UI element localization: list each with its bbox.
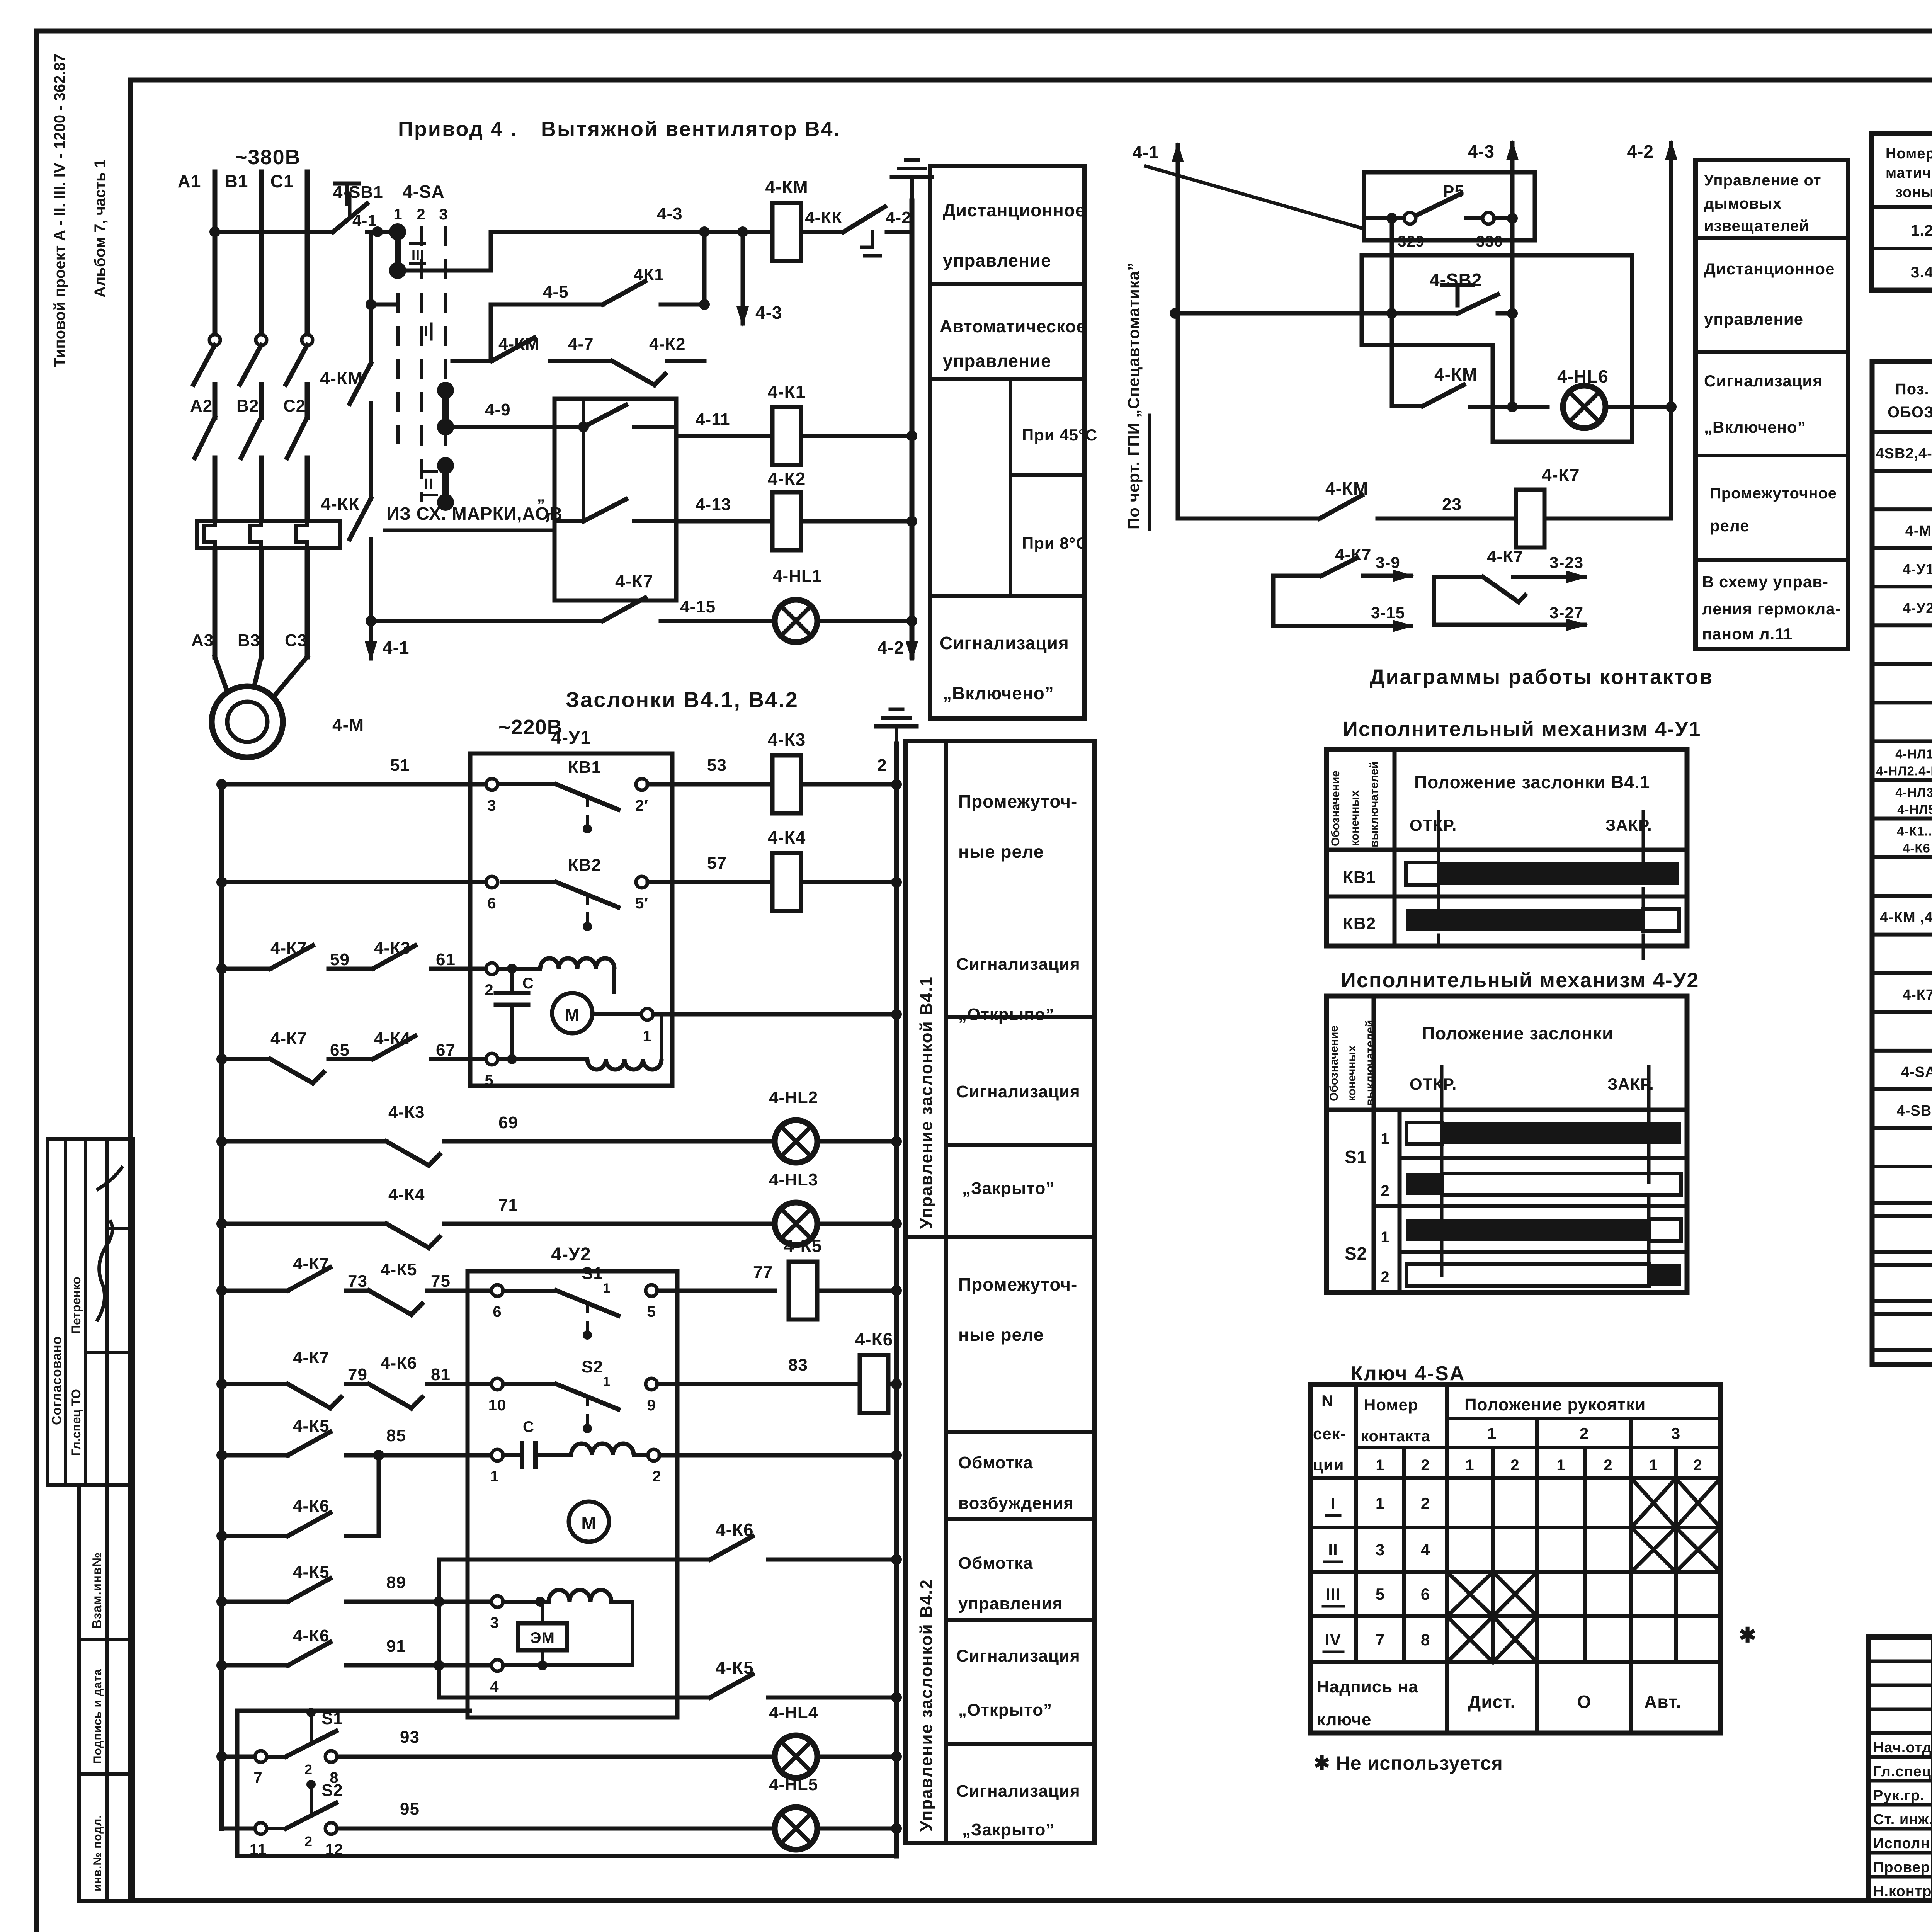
svg-text:4-У2: 4-У2	[1903, 600, 1932, 616]
svg-text:4-К6: 4-К6	[716, 1520, 754, 1540]
text column B frame	[930, 166, 1085, 718]
svg-text:В2: В2	[236, 396, 259, 415]
asterisk	[1739, 1624, 1757, 1647]
main contact 4-КМ phase B2	[241, 417, 261, 518]
svg-text:выключателей: выключателей	[1364, 1020, 1376, 1106]
svg-text:ЗАКР.: ЗАКР.	[1605, 816, 1652, 834]
svg-text:Ст. инж.: Ст. инж.	[1873, 1811, 1932, 1828]
svg-text:4-К6: 4-К6	[293, 1626, 329, 1645]
svg-text:3: 3	[439, 206, 448, 223]
wire rung 4-К5 lower	[439, 1658, 902, 1703]
svg-text:2: 2	[1604, 1457, 1612, 1474]
svg-text:71: 71	[498, 1196, 518, 1214]
breaker contact phase A	[194, 335, 220, 417]
svg-text:3: 3	[487, 797, 496, 814]
svg-text:85: 85	[386, 1426, 406, 1445]
svg-text:Заслонки В4.1, В4.2: Заслонки В4.1, В4.2	[566, 687, 799, 712]
key table header texts	[1313, 1392, 1702, 1474]
svg-text:S1: S1	[321, 1709, 343, 1728]
wire rung 69	[216, 1103, 770, 1165]
svg-text:4-1: 4-1	[383, 638, 409, 658]
svg-text:Исполнительный механизм 4-У1: Исполнительный механизм 4-У1	[1343, 718, 1701, 741]
svg-text:С: С	[522, 975, 534, 992]
heading Исполнительный механизм 4-У2	[1341, 969, 1699, 992]
svg-text:Нач.отд: Нач.отд	[1873, 1740, 1932, 1756]
svg-text:Дистанционное: Дистанционное	[1704, 260, 1835, 278]
breaker contact phase B	[240, 335, 267, 417]
cell Сигнализация Закрыто В42	[956, 1782, 1080, 1839]
svg-text:S2: S2	[1345, 1243, 1367, 1264]
svg-text:4-М: 4-М	[332, 715, 364, 735]
svg-text:5: 5	[485, 1072, 493, 1089]
svg-text:„Включено”: „Включено”	[943, 683, 1054, 703]
svg-text:2: 2	[877, 756, 887, 775]
svg-text:инв.№ подл.: инв.№ подл.	[91, 1815, 104, 1891]
wire rung 85 contact 4-К5	[216, 1417, 492, 1461]
node 4-3 label top	[657, 204, 710, 237]
wire rung 57	[216, 876, 498, 912]
svg-text:8: 8	[1421, 1631, 1430, 1649]
svg-text:Поз.: Поз.	[1895, 381, 1929, 398]
svg-text:4-К7: 4-К7	[1487, 547, 1523, 566]
arrow node 4-3 mid	[1468, 140, 1519, 162]
table 4-У1 ticks	[1439, 811, 1643, 958]
switch 4-SA bridge I	[424, 323, 454, 435]
svg-text:матической: матической	[1886, 165, 1932, 181]
relay coil 4-К4	[768, 827, 806, 911]
svg-text:„Закрыто”: „Закрыто”	[962, 1820, 1054, 1839]
svg-text:Промежуточ-: Промежуточ-	[958, 791, 1077, 811]
table 4-У2 ticks	[1442, 1066, 1649, 1132]
svg-text:„Включено”: „Включено”	[1704, 418, 1806, 436]
label ~380V	[235, 146, 301, 169]
cell Обмотка управления	[946, 1554, 1095, 1620]
text column I frame	[1696, 160, 1848, 649]
wire 77 to coil 4-К5	[657, 1263, 775, 1291]
left margin table Взам.инв№	[79, 1485, 133, 1639]
title block outline	[1869, 1637, 1932, 1901]
svg-text:4-13: 4-13	[696, 495, 731, 514]
svg-text:4-SВ1: 4-SВ1	[1897, 1103, 1932, 1119]
svg-text:79: 79	[348, 1365, 367, 1384]
svg-text:2′: 2′	[635, 797, 648, 814]
svg-text:ные реле: ные реле	[958, 1325, 1044, 1345]
svg-text:3-23: 3-23	[1549, 553, 1583, 571]
list table rows	[1872, 444, 1932, 1167]
wire stub 4-3 arrow	[736, 232, 782, 327]
cell Промежуточное реле	[1696, 485, 1848, 560]
svg-text:КВ1: КВ1	[1343, 868, 1376, 887]
svg-text:ключе: ключе	[1317, 1710, 1371, 1729]
phase leads to motor	[215, 553, 307, 694]
wire lamp HL2 to bus	[821, 1136, 902, 1147]
wire rung 4-9	[446, 400, 554, 427]
svg-text:4-15: 4-15	[680, 597, 716, 616]
table 4-У1 frame	[1327, 750, 1687, 946]
svg-text:Сигнализация: Сигнализация	[1704, 372, 1823, 390]
svg-text:11: 11	[250, 1841, 267, 1858]
pushbutton 4-SB2	[1170, 270, 1512, 319]
svg-text:65: 65	[330, 1041, 350, 1060]
svg-text:1: 1	[393, 206, 402, 223]
motor 4-М	[212, 686, 364, 757]
svg-text:2: 2	[1580, 1424, 1589, 1442]
svg-text:ные реле: ные реле	[958, 842, 1044, 862]
svg-text:75: 75	[431, 1272, 451, 1291]
key table row II	[1325, 1527, 1720, 1572]
ground right bus C	[876, 709, 917, 750]
heading Исполнительный механизм 4-У1	[1343, 718, 1701, 741]
lamp 4-НL2	[769, 1088, 818, 1163]
svg-text:12: 12	[325, 1841, 344, 1858]
wire 4-SB1 to switch	[367, 230, 398, 234]
contact diagram 4-К7 NO	[1273, 545, 1414, 632]
svg-text:По черт. ГПИ „Спецавтоматика”: По черт. ГПИ „Спецавтоматика”	[1124, 262, 1143, 529]
svg-text:Авт.: Авт.	[1644, 1692, 1681, 1712]
signature names	[1873, 1740, 1932, 1900]
svg-text:4-3: 4-3	[755, 303, 782, 323]
svg-text:1: 1	[1465, 1457, 1474, 1474]
svg-text:2: 2	[1510, 1457, 1519, 1474]
title Заслонки В4.1 В4.2	[566, 687, 799, 712]
svg-text:„Закрыто”: „Закрыто”	[962, 1179, 1054, 1198]
svg-text:Н.контр.: Н.контр.	[1873, 1883, 1932, 1900]
limit switch KB1	[502, 758, 648, 833]
wire rung 23	[1178, 478, 1516, 519]
branch 4-К6 below 85	[216, 1450, 384, 1541]
svg-text:4-К4: 4-К4	[768, 827, 806, 847]
lamp 4-НL6	[1557, 366, 1609, 428]
wire rung 91	[216, 1626, 633, 1695]
svg-text:91: 91	[386, 1637, 406, 1656]
svg-text:4-3: 4-3	[1468, 141, 1495, 162]
svg-text:Обмотка: Обмотка	[958, 1554, 1033, 1573]
labels A3 B3 C3	[191, 631, 307, 650]
arrow node 4-1 mid	[1133, 142, 1184, 162]
svg-text:23: 23	[1442, 495, 1462, 514]
row S2-2	[1345, 1243, 1681, 1286]
control box ПКУ outline	[1362, 255, 1632, 442]
svg-text:2: 2	[1381, 1182, 1389, 1199]
svg-text:Вытяжной вентилятор В4.: Вытяжной вентилятор В4.	[541, 117, 840, 141]
svg-text:69: 69	[498, 1113, 518, 1132]
svg-text:7: 7	[253, 1769, 262, 1786]
text ИЗ СХ МАРКИ АОВ	[384, 497, 563, 530]
svg-text:ОТКР.: ОТКР.	[1410, 1075, 1457, 1093]
bus C1 vertical	[270, 171, 307, 336]
svg-text:6: 6	[1421, 1585, 1430, 1603]
svg-text:5: 5	[647, 1303, 656, 1320]
svg-text:57: 57	[707, 854, 727, 872]
svg-text:6: 6	[487, 895, 496, 912]
svg-text:I: I	[1331, 1494, 1336, 1512]
svg-text:4-НЛ2.4-НЛ4: 4-НЛ2.4-НЛ4	[1876, 764, 1932, 778]
svg-text:4-2: 4-2	[1627, 141, 1654, 162]
right bus section C	[894, 744, 899, 1856]
switch 4-SA rail 2 dashed	[420, 226, 423, 502]
wire rung 4-7	[452, 335, 704, 385]
svg-text:95: 95	[400, 1799, 420, 1818]
leader diagonal	[1146, 166, 1364, 229]
svg-text:4-КМ: 4-КМ	[1434, 364, 1477, 384]
solenoid ЭМ	[518, 1602, 567, 1670]
svg-text:4-КМ: 4-КМ	[1325, 478, 1368, 498]
svg-text:Положение заслонки В4.1: Положение заслонки В4.1	[1414, 772, 1650, 792]
svg-text:ИЗ СХ. МАРКИ,АОВ: ИЗ СХ. МАРКИ,АОВ	[386, 503, 563, 524]
svg-text:4-К6: 4-К6	[1903, 841, 1930, 855]
key table bottom row	[1317, 1677, 1681, 1729]
svg-text:4-3: 4-3	[657, 204, 683, 223]
svg-text:сек-: сек-	[1313, 1425, 1346, 1443]
svg-text:3: 3	[1671, 1424, 1680, 1442]
table 4-У1 header	[1327, 762, 1687, 850]
svg-text:N: N	[1321, 1392, 1333, 1410]
note not used	[1314, 1752, 1503, 1774]
heading Диаграммы работы контактов	[1370, 665, 1713, 689]
svg-text:9: 9	[647, 1397, 656, 1414]
svg-text:дымовых: дымовых	[1704, 195, 1782, 212]
switch S1 in 4-У2	[556, 1264, 657, 1340]
switch S2 in 4-У2	[556, 1357, 657, 1433]
svg-text:1: 1	[603, 1374, 611, 1389]
wire rung 89	[216, 1563, 633, 1665]
svg-text:1: 1	[1376, 1457, 1384, 1474]
cell В схему управления	[1702, 573, 1841, 643]
svg-text:4-SB1: 4-SB1	[333, 183, 383, 202]
svg-text:4-У2: 4-У2	[551, 1244, 591, 1265]
wire rung 51	[216, 756, 502, 814]
svg-text:4-К3: 4-К3	[374, 939, 410, 957]
svg-text:А2: А2	[190, 396, 213, 415]
svg-text:КВ2: КВ2	[568, 855, 601, 874]
svg-text:4-К5: 4-К5	[716, 1658, 754, 1678]
svg-text:Согласовано: Согласовано	[49, 1336, 64, 1425]
limit switch KB2	[502, 855, 648, 931]
list header	[1872, 381, 1932, 432]
wire coil 4-К7 to 4-2	[1544, 517, 1671, 521]
svg-text:4-НЛ5: 4-НЛ5	[1897, 802, 1932, 816]
cell Сигнализация Включено I	[1696, 372, 1848, 456]
svg-text:Автоматическое: Автоматическое	[940, 316, 1086, 336]
actuator motor M 4-У1	[552, 993, 592, 1033]
key table row IV	[1324, 1616, 1537, 1662]
arrow 4-1 bottom	[365, 621, 409, 662]
wire 4-КК to right bus	[887, 230, 912, 234]
svg-text:S2: S2	[321, 1781, 343, 1800]
svg-text:управление: управление	[943, 250, 1051, 270]
actuator motor cap C	[496, 964, 540, 1064]
svg-text:81: 81	[431, 1365, 451, 1384]
terminal 1 capacitor inductor	[490, 1418, 902, 1485]
arrow node 4-2 mid	[1627, 140, 1677, 162]
aux vertical 4-SB1 down	[366, 232, 376, 363]
wire 57 to coil 4-К4	[648, 854, 772, 882]
svg-text:Исполнительный механизм 4-У2: Исполнительный механизм 4-У2	[1341, 969, 1699, 992]
label ~220V	[498, 716, 563, 739]
rotated label Управление заслонкой В4.2	[917, 1579, 936, 1832]
wire lamp to bus	[821, 616, 917, 626]
svg-text:Промежуточ-: Промежуточ-	[958, 1274, 1077, 1294]
svg-text:”: ”	[537, 497, 545, 514]
cell Дистанционное управление I	[1696, 260, 1848, 352]
svg-text:4-К5: 4-К5	[293, 1417, 329, 1435]
svg-text:Привод 4 .: Привод 4 .	[398, 117, 517, 141]
svg-text:С3: С3	[285, 631, 307, 650]
svg-text:4-К7: 4-К7	[1335, 545, 1371, 564]
relay box Р5	[1364, 172, 1535, 240]
svg-text:4-К6: 4-К6	[293, 1497, 329, 1515]
svg-text:2: 2	[1693, 1457, 1702, 1474]
svg-text:4-К4: 4-К4	[388, 1185, 425, 1204]
svg-text:4: 4	[490, 1678, 499, 1695]
svg-text:Промежуточное: Промежуточное	[1710, 485, 1837, 502]
svg-text:Надпись на: Надпись на	[1317, 1677, 1418, 1696]
motor M 4-У2	[569, 1502, 609, 1542]
svg-text:4-М: 4-М	[1905, 523, 1932, 539]
relay coil 4-К7 mid	[1516, 465, 1580, 548]
divider B41 B42	[906, 1235, 1095, 1239]
svg-text:Гл.спец ТО: Гл.спец ТО	[69, 1389, 83, 1456]
svg-text:Обозначение: Обозначение	[1329, 770, 1342, 846]
list table frame	[1872, 361, 1932, 1365]
svg-text:III: III	[412, 247, 424, 263]
wire coil 4-К5 to bus	[817, 1285, 902, 1296]
svg-text:А3: А3	[191, 631, 214, 650]
contact diagram 4-К7 NC	[1434, 547, 1588, 631]
main contact 4-КМ phase C2	[287, 417, 307, 518]
label 4-КМ main	[320, 368, 363, 388]
wire rung 4-К6 upper	[439, 1520, 902, 1565]
wire rung 4-15	[366, 571, 770, 626]
svg-text:51: 51	[390, 756, 410, 775]
svg-text:2: 2	[652, 1468, 661, 1485]
svg-text:77: 77	[753, 1263, 773, 1282]
thermal relay 4-КК	[197, 494, 360, 553]
node 4-1 top	[352, 211, 383, 237]
svg-text:4-К3: 4-К3	[768, 730, 806, 750]
wire rung 4-13	[676, 495, 772, 521]
svg-text:4-1: 4-1	[352, 211, 377, 230]
interlock inner vertical	[582, 427, 585, 521]
svg-text:61: 61	[436, 950, 456, 969]
bus B1 vertical	[225, 171, 261, 336]
svg-text:конечных: конечных	[1349, 790, 1361, 846]
svg-text:III: III	[1326, 1585, 1340, 1603]
svg-text:67: 67	[436, 1041, 456, 1060]
wire bridge III to step	[398, 232, 704, 270]
interlock contact upper	[554, 403, 676, 432]
svg-text:С1: С1	[270, 171, 294, 191]
vertical 4-1 mid	[1176, 162, 1180, 519]
cell Сигнализация Открыто В41	[946, 955, 1095, 1145]
switch 4-SA rail 1 dashed	[396, 226, 400, 444]
svg-text:4-КК: 4-КК	[321, 494, 360, 514]
key table row III	[1323, 1572, 1537, 1616]
svg-text:II: II	[1328, 1541, 1338, 1559]
switch 4-SA label	[393, 182, 448, 223]
svg-text:ции: ции	[1313, 1456, 1344, 1474]
svg-text:4-К2: 4-К2	[768, 469, 806, 489]
wire rung 73 75 77	[216, 1254, 556, 1320]
row S1-2	[1345, 1147, 1687, 1229]
svg-text:4-К7: 4-К7	[293, 1254, 329, 1273]
svg-text:59: 59	[330, 950, 350, 969]
svg-text:Сигнализация: Сигнализация	[956, 1782, 1080, 1801]
svg-text:4: 4	[1421, 1541, 1430, 1559]
svg-text:2: 2	[417, 206, 425, 223]
cell Сигнализация Открыто В42	[946, 1646, 1095, 1744]
main contact 4-КМ phase A2	[195, 417, 215, 518]
vertical from Р5 left	[1386, 213, 1397, 406]
svg-text:управления: управления	[958, 1594, 1063, 1613]
wire coil 4-К6 to bus	[888, 1379, 902, 1389]
svg-text:4-КМ: 4-КМ	[498, 335, 540, 354]
svg-text:330: 330	[1476, 233, 1503, 250]
svg-text:4-7: 4-7	[568, 335, 594, 354]
left margin table Подпись и дата	[79, 1639, 133, 1774]
svg-text:3-15: 3-15	[1371, 604, 1405, 622]
svg-text:2: 2	[1421, 1457, 1430, 1474]
apparatus table frame	[1872, 133, 1932, 290]
thermal contact 4-КК top	[801, 207, 912, 256]
svg-text:4-1: 4-1	[1133, 142, 1159, 162]
svg-text:Исполн.: Исполн.	[1873, 1835, 1932, 1852]
signature table rows	[1869, 1661, 1932, 1877]
svg-text:4-КМ ,4-КК: 4-КМ ,4-КК	[1880, 910, 1932, 926]
actuator box 4-У2	[468, 1244, 677, 1718]
wire rung 79 81 83	[216, 1348, 556, 1414]
svg-text:ления гермокла-: ления гермокла-	[1702, 600, 1841, 618]
ground right bus B	[892, 160, 932, 201]
table 4-У2 frame	[1327, 996, 1687, 1293]
svg-text:4-9: 4-9	[485, 400, 511, 419]
svg-text:Дист.: Дист.	[1468, 1692, 1516, 1712]
relay coil 4-К1	[768, 382, 806, 465]
svg-text:1: 1	[603, 1281, 611, 1296]
wire 4-К1 to bus	[801, 430, 917, 441]
svg-text:ОТКР.: ОТКР.	[1410, 816, 1457, 834]
row KB2	[1343, 909, 1679, 933]
svg-text:М: М	[565, 1005, 580, 1025]
vertical 4-2 mid	[1666, 162, 1677, 519]
cell Дистанционное управление	[930, 200, 1085, 284]
svg-text:В схему управ-: В схему управ-	[1702, 573, 1828, 591]
svg-text:Положение заслонки: Положение заслонки	[1422, 1023, 1613, 1043]
svg-text:зоны: зоны	[1895, 184, 1932, 201]
svg-text:4-К3: 4-К3	[388, 1103, 425, 1122]
svg-text:Взам.инв№: Взам.инв№	[90, 1552, 104, 1629]
title Привод 4	[398, 117, 840, 141]
svg-text:5: 5	[1376, 1585, 1385, 1603]
cell Обмотка возбуждения	[946, 1453, 1095, 1519]
wire rung 59 61	[216, 939, 498, 998]
apparatus row 1	[1911, 211, 1932, 247]
cell Сигнализация Включено	[940, 633, 1069, 703]
svg-text:53: 53	[707, 756, 727, 775]
svg-text:Диаграммы работы контактов: Диаграммы работы контактов	[1370, 665, 1713, 689]
svg-text:4-К2: 4-К2	[649, 335, 685, 354]
breaker contact phase C	[286, 335, 313, 417]
switch 4-SA bridge III	[389, 223, 425, 279]
vertical 4-3 mid	[1507, 162, 1518, 412]
wire aux to rail1	[371, 303, 398, 307]
svg-text:1: 1	[1649, 1457, 1658, 1474]
wire 83 to coil 4-К6	[657, 1355, 860, 1384]
svg-text:1: 1	[490, 1468, 499, 1485]
svg-text:4-К5: 4-К5	[381, 1260, 417, 1279]
svg-text:83: 83	[788, 1355, 808, 1374]
svg-text:Управление заслонкой В4.1: Управление заслонкой В4.1	[917, 976, 936, 1229]
